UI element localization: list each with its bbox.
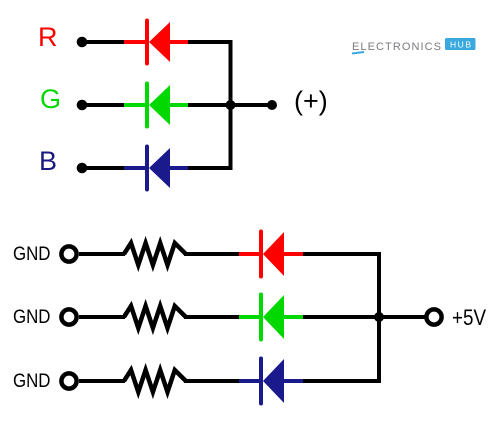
svg-text:HUB: HUB [450, 40, 471, 50]
svg-text:+5V: +5V [452, 305, 486, 330]
svg-text:GND: GND [13, 244, 51, 265]
svg-text:R: R [38, 22, 58, 52]
svg-text:GND: GND [13, 371, 51, 392]
svg-text:GND: GND [13, 307, 51, 328]
svg-text:ELECTRONICS: ELECTRONICS [352, 41, 441, 53]
svg-text:B: B [39, 146, 57, 176]
svg-text:(+): (+) [294, 86, 328, 116]
svg-text:G: G [40, 84, 61, 114]
